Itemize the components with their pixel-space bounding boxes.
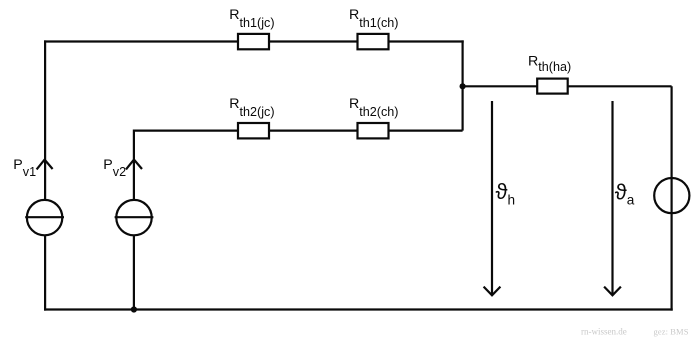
svg-text:Rth1(jc): Rth1(jc) bbox=[229, 7, 274, 30]
temperature arrow theta_h (down) bbox=[484, 101, 501, 295]
svg-text:Rth2(jc): Rth2(jc) bbox=[229, 96, 274, 119]
svg-text:ϑa: ϑa bbox=[615, 180, 635, 208]
junction node K (dot) bbox=[460, 83, 466, 89]
svg-text:Rth(ha): Rth(ha) bbox=[528, 54, 571, 74]
wire top horizontal (P_v1 branch to node K) bbox=[44, 40, 464, 42]
resistor R_th1(ch) (box) bbox=[358, 34, 389, 49]
temperature arrow theta_a (down) bbox=[604, 101, 621, 295]
junction on bottom rail at P_v2 bbox=[131, 306, 137, 312]
wire P_v2 vertical lower (P_v2 source to bottom rail) bbox=[133, 235, 135, 311]
resistor R_th2(jc) (box) bbox=[238, 123, 269, 138]
wire node-K vertical (joins top and row2 branches) bbox=[462, 40, 464, 130]
wire right vertical (through ambient source to bottom rail) bbox=[670, 86, 672, 310]
svg-text:gez: BMS: gez: BMS bbox=[654, 327, 689, 337]
svg-text:rn-wissen.de: rn-wissen.de bbox=[581, 327, 627, 337]
resistor R_th(ha) (box) bbox=[537, 79, 568, 94]
wire left vertical lower (P_v1 source to bottom rail) bbox=[44, 235, 46, 311]
arrowhead on P_v1 wire (up) bbox=[37, 160, 53, 170]
svg-text:Pv2: Pv2 bbox=[103, 157, 126, 179]
resistor R_th1(jc) (box) bbox=[238, 34, 269, 49]
wire left vertical upper (top wire down to P_v1 source) bbox=[44, 40, 46, 200]
wire P_v2 vertical upper (row2 wire down to P_v2 source) bbox=[133, 130, 135, 201]
svg-text:Pv1: Pv1 bbox=[13, 157, 36, 179]
svg-text:Rth2(ch): Rth2(ch) bbox=[349, 96, 398, 119]
current source P_v2 (circle with crossbar) bbox=[115, 200, 154, 235]
wire bottom rail bbox=[44, 308, 673, 310]
wire row2 horizontal (P_v2 branch to node K) bbox=[134, 130, 463, 132]
current source P_v1 (circle with crossbar) bbox=[25, 200, 64, 235]
temperature source (ambient, circle on right rail) bbox=[654, 178, 689, 213]
resistor R_th2(ch) (box) bbox=[358, 123, 389, 138]
svg-text:Rth1(ch): Rth1(ch) bbox=[349, 7, 398, 30]
arrowhead on P_v2 wire (up) bbox=[126, 160, 142, 170]
wire heatsink horizontal (node K to R_th(ha) to right rail) bbox=[463, 85, 672, 87]
svg-text:ϑh: ϑh bbox=[496, 179, 516, 208]
